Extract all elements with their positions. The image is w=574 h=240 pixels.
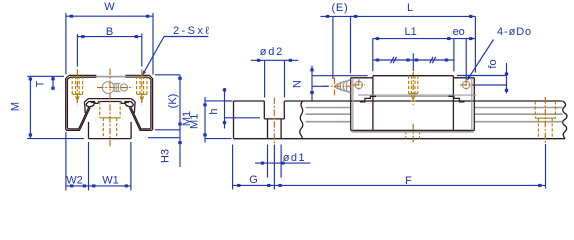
svg-text:(K): (K) <box>167 94 179 109</box>
svg-text:ød1: ød1 <box>283 152 306 164</box>
svg-text:L: L <box>407 2 413 14</box>
svg-text:F: F <box>405 175 412 187</box>
svg-text:H3: H3 <box>159 149 171 163</box>
svg-text:N: N <box>292 80 304 88</box>
svg-text:M: M <box>10 102 22 111</box>
svg-text:(E): (E) <box>331 2 348 14</box>
svg-text:L1: L1 <box>404 26 416 38</box>
svg-text:fo: fo <box>487 59 499 68</box>
svg-text:4-øDo: 4-øDo <box>497 26 532 38</box>
svg-text:h: h <box>208 108 220 114</box>
svg-text:G: G <box>249 174 258 186</box>
svg-text:M1: M1 <box>189 114 201 129</box>
svg-text:eo: eo <box>453 26 465 38</box>
svg-text:T: T <box>35 80 47 87</box>
svg-text:2-Sxℓ: 2-Sxℓ <box>173 25 211 37</box>
svg-text:W2: W2 <box>66 174 83 186</box>
svg-text:W: W <box>104 1 115 13</box>
svg-text:W1: W1 <box>102 174 119 186</box>
svg-text:B: B <box>106 26 113 38</box>
svg-text:ød2: ød2 <box>260 46 284 58</box>
